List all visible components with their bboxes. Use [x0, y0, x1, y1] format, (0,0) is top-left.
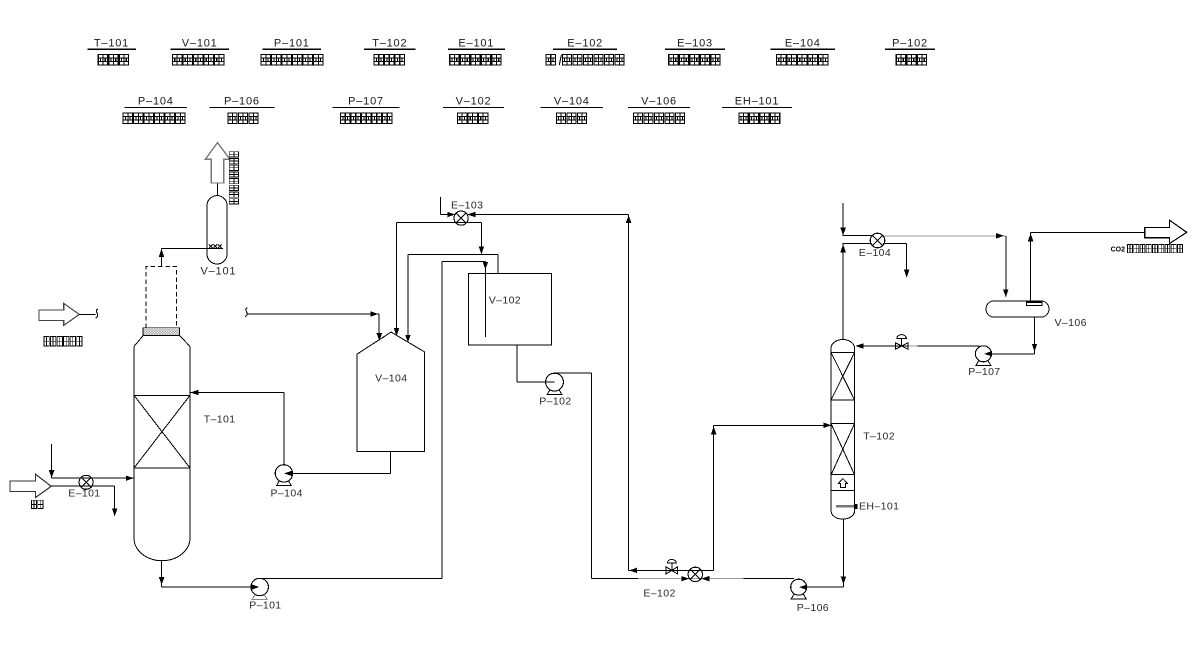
svg-text:E–103: E–103: [677, 37, 713, 49]
svg-text:E–103: E–103: [451, 199, 483, 211]
svg-text:CO2: CO2: [1111, 247, 1126, 254]
svg-text:E–101: E–101: [458, 37, 494, 49]
svg-text:P–102: P–102: [892, 37, 928, 49]
svg-text:V–104: V–104: [554, 95, 590, 107]
svg-text:E–102: E–102: [643, 587, 675, 599]
svg-text:P–106: P–106: [224, 95, 260, 107]
svg-text:P–102: P–102: [539, 395, 571, 407]
svg-text:T–101: T–101: [94, 37, 129, 49]
svg-text:V–106: V–106: [1055, 317, 1087, 329]
svg-text:P–104: P–104: [138, 95, 174, 107]
svg-text:T–102: T–102: [863, 430, 895, 442]
svg-text:P–107: P–107: [968, 366, 1000, 378]
svg-text:E–104: E–104: [859, 247, 891, 259]
svg-text:E–104: E–104: [785, 37, 821, 49]
svg-text:V–102: V–102: [489, 294, 521, 306]
svg-text:V–101: V–101: [201, 265, 237, 277]
svg-text:EH–101: EH–101: [735, 95, 780, 107]
svg-text:E–101: E–101: [68, 488, 100, 500]
svg-text:T–102: T–102: [372, 37, 407, 49]
svg-text:P–107: P–107: [348, 95, 384, 107]
svg-text:EH–101: EH–101: [859, 500, 899, 512]
svg-text:E–102: E–102: [567, 37, 603, 49]
svg-text:V–102: V–102: [456, 95, 492, 107]
svg-text:V–104: V–104: [375, 372, 407, 384]
svg-text:P–101: P–101: [274, 37, 310, 49]
svg-text:V–106: V–106: [641, 95, 677, 107]
svg-text:P–104: P–104: [271, 488, 303, 500]
svg-text:P–101: P–101: [249, 599, 281, 611]
svg-text:T–101: T–101: [204, 413, 236, 425]
svg-text:V–101: V–101: [182, 37, 218, 49]
svg-text:P–106: P–106: [797, 602, 829, 614]
